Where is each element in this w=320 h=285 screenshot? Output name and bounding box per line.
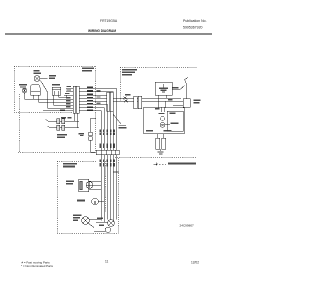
- callout arrow cabinet harness: [113, 114, 121, 124]
- fresh food compartment label: [63, 163, 77, 167]
- wire stub row2: [66, 91, 73, 93]
- evaporator fan legs: [33, 95, 35, 99]
- evaporator fan motor body: [31, 85, 41, 96]
- service cord plug: [183, 99, 191, 108]
- diagram part number: [180, 224, 195, 228]
- light wires: [89, 218, 101, 220]
- ground cluster hatch: [96, 221, 108, 223]
- inline connector pair right bus: [134, 96, 138, 108]
- footer page number: [105, 260, 109, 264]
- svg-text:Publication No.: Publication No.: [183, 19, 207, 23]
- compressor plug legs: [157, 134, 159, 139]
- fresh food compartment dashed right: [104, 161, 106, 212]
- freezer light label: [34, 70, 42, 74]
- freezer compartment dashed border bottom: [14, 112, 79, 114]
- header rule: [5, 33, 212, 35]
- harness connector block left half: [73, 86, 76, 113]
- header model number FRT19G5A: [100, 19, 118, 23]
- freezer compartment dashed border right: [94, 66, 96, 152]
- inline connector wire 2: [50, 127, 79, 129]
- harness connector block right half: [76, 86, 79, 113]
- top harness connector pair: [107, 92, 110, 111]
- fresh food light lamp: [82, 217, 90, 225]
- adc right wire: [172, 89, 180, 91]
- machine compartment left edge: [119, 67, 121, 101]
- vertical harness drops: [115, 88, 117, 150]
- light switch arm: [88, 223, 94, 227]
- cold control wires: [89, 180, 102, 182]
- compressor terminals: [160, 107, 162, 112]
- adc legs: [158, 95, 160, 98]
- header publication number: [183, 19, 207, 30]
- freezer light lamp: [34, 76, 40, 82]
- wire door switch leg2 bus: [59, 96, 67, 98]
- freezer compartment dashed border left: [13, 66, 15, 112]
- bus continues over compressor: [142, 97, 182, 99]
- machine compartment label: [122, 69, 137, 76]
- wire code labels above strip: [100, 144, 115, 149]
- inline connector wire 1: [48, 120, 79, 122]
- compressor box: [144, 107, 185, 134]
- wire color labels right of block: [87, 87, 101, 111]
- svg-text:24C99807: 24C99807: [180, 224, 195, 228]
- legend arrow note: [154, 163, 158, 165]
- footer date: [191, 261, 199, 265]
- fresh food compartment dashed bottom: [57, 232, 119, 234]
- service cord riser: [185, 83, 187, 99]
- wire freezer fan drop: [24, 93, 26, 99]
- wire evap fan leg2 bus: [39, 101, 74, 103]
- light switch label: [49, 75, 56, 79]
- cold control body: [79, 179, 89, 192]
- relay label: [146, 130, 153, 132]
- wire color labels left of block: [65, 86, 71, 107]
- svg-text:12/02: 12/02: [191, 261, 199, 265]
- door switch box: [52, 87, 61, 95]
- harness wire labels: [61, 117, 72, 118]
- fan motor label: [77, 200, 85, 202]
- freezer fan motor FM1: [22, 88, 27, 93]
- fresh food compartment dashed left: [56, 161, 58, 233]
- center verticals lower: [100, 155, 102, 221]
- wire label on dashed bottom: [60, 110, 65, 111]
- freezer compartment dashed border top: [14, 65, 95, 67]
- cold control label: [66, 181, 74, 185]
- compressor plug connector: [156, 138, 160, 149]
- run winding circle: [160, 122, 165, 127]
- footer fast moving parts note: [21, 260, 53, 268]
- inner overload enclosure: [167, 111, 183, 131]
- freezer liner dashed left edge: [19, 94, 21, 153]
- machine compartment dashed bottom: [115, 157, 197, 159]
- fan motor wire: [98, 201, 104, 203]
- wire circle to overload: [165, 124, 170, 126]
- door switch label: [52, 84, 60, 86]
- switch arm diagonal: [41, 81, 48, 93]
- wire door switch bus: [54, 104, 74, 106]
- door switch legs: [53, 95, 55, 105]
- svg-text:WIRING DIAGRAM: WIRING DIAGRAM: [88, 29, 116, 33]
- terminal block bottom drops: [74, 113, 76, 121]
- wire stub row1: [66, 87, 73, 89]
- adaptive defrost control box: [155, 82, 172, 95]
- bus wires right of block: [79, 87, 116, 89]
- svg-text:5995367920: 5995367920: [183, 26, 203, 30]
- fresh food fan motor: [92, 198, 99, 205]
- service cord label: [194, 100, 201, 104]
- freezer compartment label: [82, 68, 94, 72]
- wire bottom bus: [43, 110, 73, 112]
- fresh food dashed right lower: [118, 158, 120, 233]
- connector label text: [57, 134, 67, 138]
- crimp terminal marks: [123, 97, 127, 100]
- svg-text:11: 11: [105, 260, 109, 264]
- svg-text:FRT19G5A: FRT19G5A: [100, 19, 118, 23]
- drops into compressor box: [158, 98, 160, 108]
- ground cluster circle 2: [105, 227, 110, 232]
- wire code labels mid verticals: [100, 130, 115, 136]
- fresh food compartment dashed top: [57, 160, 96, 162]
- svg-text:* = Non illuminated Parts: * = Non illuminated Parts: [21, 264, 53, 268]
- ground cluster circle 1: [108, 220, 115, 227]
- freezer fan label: [19, 84, 27, 88]
- ground marks: [158, 152, 164, 155]
- wire code labels below strip: [100, 160, 115, 167]
- right bus wires: [120, 97, 143, 99]
- left branch wire to fresh food: [91, 117, 97, 119]
- machine compartment dashed top: [120, 66, 197, 68]
- mid harness connector strip: [96, 150, 119, 155]
- fresh food light label: [73, 215, 82, 221]
- cold control capillary: [80, 181, 83, 190]
- overload label: [164, 130, 172, 132]
- wire freezer fan to bus: [25, 98, 73, 100]
- start winding circle: [160, 116, 164, 120]
- freezer liner dashed line: [18, 152, 95, 154]
- title WIRING DIAGRAM: [88, 29, 116, 33]
- light switch arrow wire: [40, 78, 48, 80]
